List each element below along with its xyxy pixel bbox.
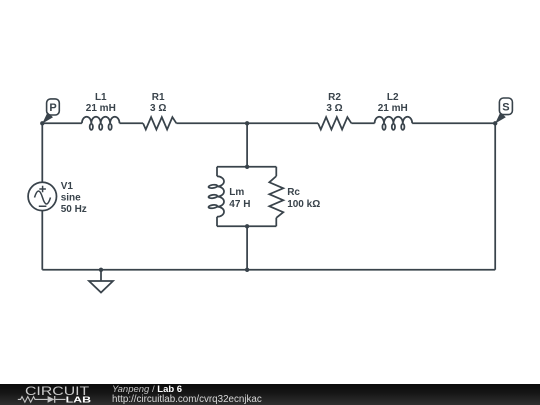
svg-text:47 H: 47 H — [229, 199, 250, 210]
svg-text:50 Hz: 50 Hz — [61, 204, 87, 215]
svg-text:3 Ω: 3 Ω — [326, 103, 342, 114]
svg-text:100 kΩ: 100 kΩ — [287, 199, 320, 210]
svg-text:21 mH: 21 mH — [378, 103, 408, 114]
svg-text:V1: V1 — [61, 181, 74, 192]
svg-text:Lm: Lm — [229, 187, 244, 198]
svg-text:R1: R1 — [152, 92, 165, 103]
svg-text:Rc: Rc — [287, 187, 300, 198]
svg-text:L1: L1 — [95, 92, 107, 103]
svg-text:LAB: LAB — [66, 395, 92, 405]
svg-text:R2: R2 — [328, 92, 341, 103]
svg-text:P: P — [49, 102, 56, 114]
svg-text:21 mH: 21 mH — [86, 103, 116, 114]
svg-text:S: S — [502, 102, 509, 114]
svg-text:sine: sine — [61, 193, 81, 204]
svg-text:L2: L2 — [387, 92, 399, 103]
svg-text:3 Ω: 3 Ω — [150, 103, 166, 114]
